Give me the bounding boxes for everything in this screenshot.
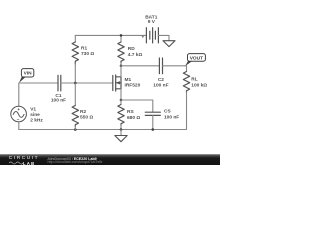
transistor M1 (NMOS IRF520) [113,75,121,91]
wire top rail from R1 to BAT1 [75,34,146,36]
svg-text:CS: CS [164,108,171,114]
svg-text:+: + [17,108,20,113]
node RD top junction [120,34,123,37]
resistor R2 [74,83,76,106]
svg-text:RL: RL [191,77,197,83]
svg-text:4.7 kΩ: 4.7 kΩ [128,52,143,58]
svg-text:100 nF: 100 nF [153,82,168,88]
node CS bottom [152,128,155,131]
svg-text:R2: R2 [80,109,86,115]
flag VIN [19,76,26,83]
flag VOUT [185,60,192,66]
svg-text:9 V: 9 V [148,19,156,25]
svg-text:+: + [142,36,145,41]
wire battery to top ground [158,35,169,40]
svg-text:R1: R1 [81,45,87,51]
svg-text:RD: RD [128,46,135,52]
node gate row / R1-R2 junction [74,82,77,85]
CircuitLab logo [9,156,39,161]
footer bar [0,154,220,165]
svg-text:C2: C2 [158,77,164,83]
svg-text:VOUT: VOUT [190,55,203,61]
resistor RD [120,35,122,42]
capacitor C1 [58,75,61,91]
svg-text:550 Ω: 550 Ω [80,114,93,120]
svg-text:RS: RS [127,109,134,115]
node source/RS/CS junction [120,99,123,102]
svg-text:100 kΩ: 100 kΩ [191,82,207,88]
node RD bottom / drain / C2 junction [120,65,123,68]
voltage source V1 [18,83,20,106]
svg-text:M1: M1 [125,77,132,83]
wire R1 bottom to gate node [74,63,76,83]
ground (bottom, below RS) [120,130,122,136]
capacitor CS [121,100,153,112]
svg-text:730 Ω: 730 Ω [81,51,94,57]
wire C1 to gate [61,82,113,84]
resistor RL [186,66,188,72]
ground (top, battery negative) [163,41,175,47]
wire bottom rail [19,129,187,131]
svg-text:680 Ω: 680 Ω [127,115,140,121]
svg-text:100 nF: 100 nF [51,97,66,103]
wire gate row: VIN node to C1 [19,82,58,84]
resistor R1 [74,35,76,42]
svg-text:100 nF: 100 nF [164,114,179,120]
node R2 bottom [74,128,77,131]
svg-text:IRF520: IRF520 [125,82,141,88]
svg-text:sine: sine [30,112,40,118]
footer text [48,157,97,161]
resistor RS [120,100,122,105]
svg-text:V1: V1 [30,107,36,113]
battery BAT1 [146,28,158,43]
capacitor C2 [121,65,159,67]
wire source lead [120,89,122,100]
svg-text:VIN: VIN [24,71,33,77]
svg-text:2 kHz: 2 kHz [30,118,43,124]
wire drain lead [120,66,122,77]
node RS bottom [120,128,123,131]
